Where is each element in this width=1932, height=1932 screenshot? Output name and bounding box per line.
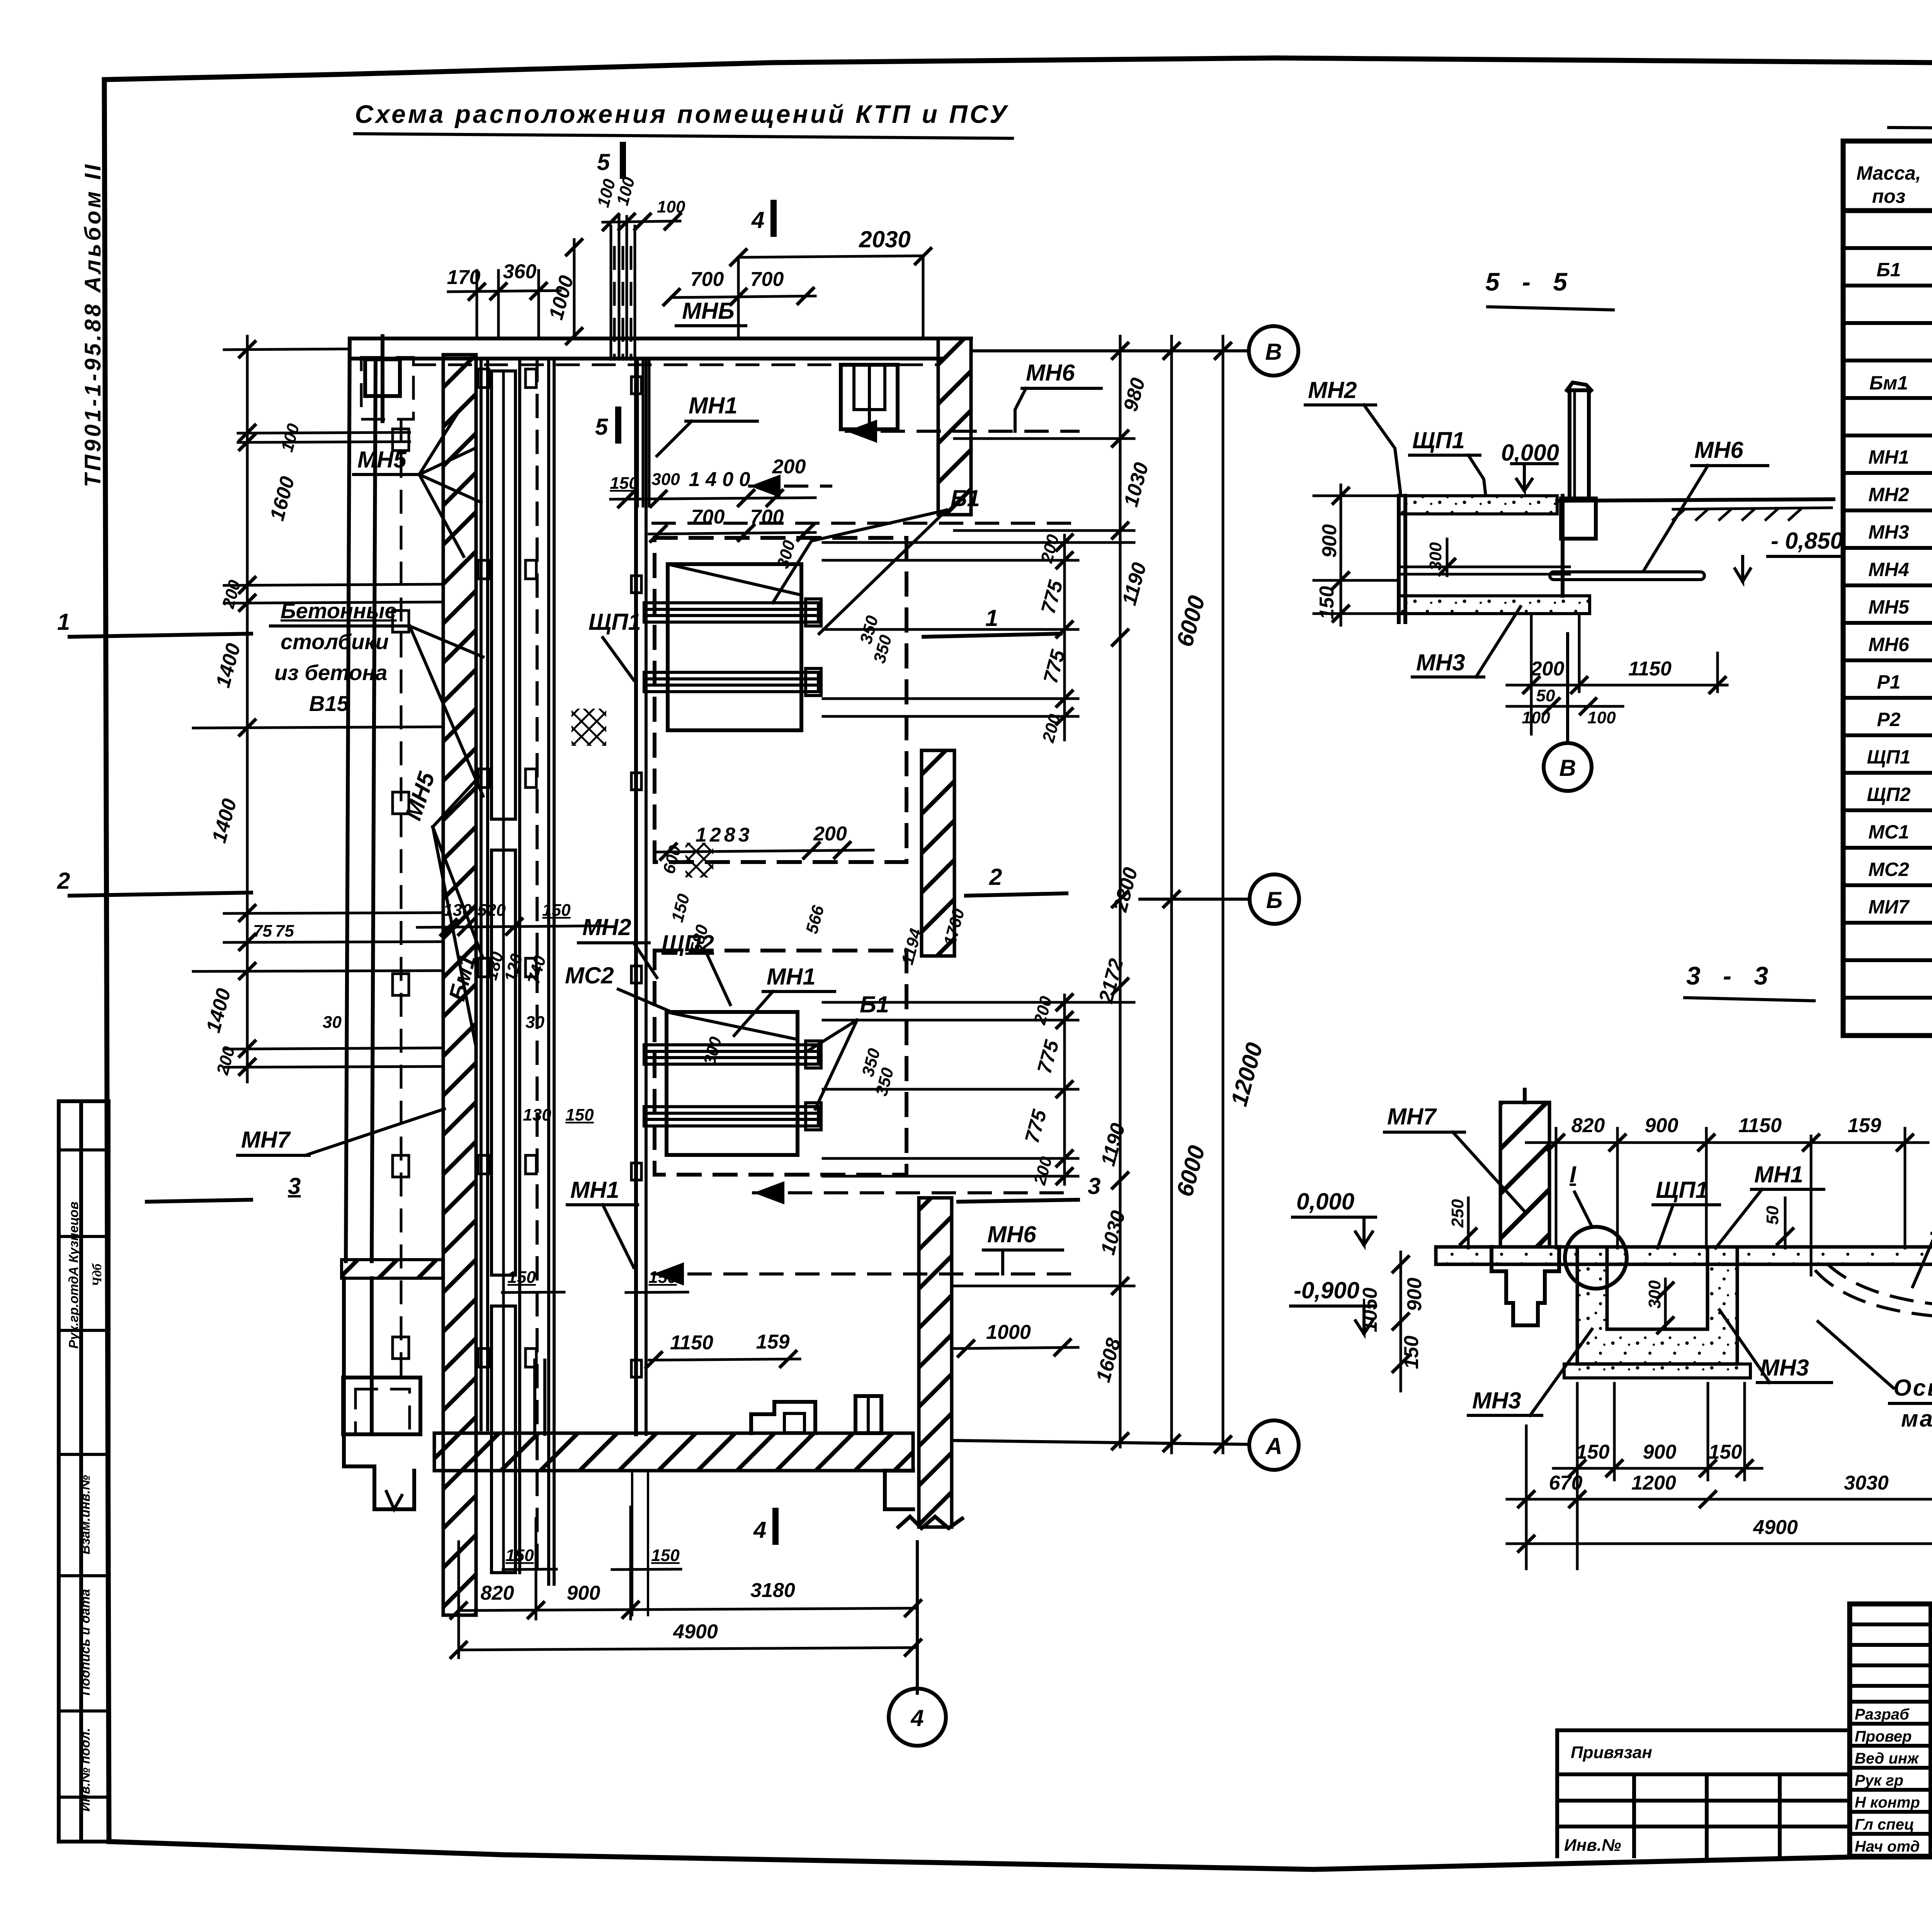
svg-text:А: А: [1265, 1433, 1282, 1459]
svg-text:МН7: МН7: [1387, 1104, 1437, 1129]
svg-text:150: 150: [651, 1546, 680, 1565]
svg-text:из бетона: из бетона: [274, 660, 387, 685]
svg-text:1: 1: [985, 605, 998, 631]
svg-text:159: 159: [756, 1331, 790, 1353]
svg-text:300: 300: [1426, 542, 1445, 571]
pit: [1577, 1247, 1737, 1364]
right chain: [1119, 336, 1122, 1447]
bottom dims: [1530, 614, 1533, 734]
svg-text:МС2: МС2: [565, 963, 614, 988]
svg-text:700: 700: [750, 268, 784, 291]
svg-text:Рук.гр.отдА Кузнецов: Рук.гр.отдА Кузнецов: [66, 1202, 81, 1349]
svg-text:4: 4: [753, 1517, 766, 1543]
svg-text:0,000: 0,000: [1296, 1189, 1354, 1214]
svg-text:1 4 0 0: 1 4 0 0: [689, 468, 750, 491]
svg-text:Ось трансфор-: Ось трансфор-: [1893, 1375, 1932, 1401]
svg-text:150: 150: [505, 1546, 534, 1565]
svg-text:2: 2: [57, 868, 70, 894]
B1 beam group upper: [668, 564, 801, 730]
svg-text:Р2: Р2: [1877, 709, 1900, 730]
svg-text:Б1: Б1: [951, 485, 980, 511]
svg-text:МН7: МН7: [241, 1127, 291, 1153]
mid-upper dims 150 300 1400 200: [611, 498, 815, 499]
svg-text:820: 820: [481, 1582, 514, 1604]
svg-text:30: 30: [526, 1013, 544, 1032]
left wall: [1500, 1102, 1549, 1247]
anchor squares MN5: [478, 369, 641, 1377]
bottom dims: [1576, 1383, 1579, 1569]
svg-text:МН4: МН4: [1868, 559, 1909, 580]
svg-text:1283: 1283: [696, 824, 753, 846]
svg-text:МН1: МН1: [1868, 446, 1909, 468]
section marks and axis labels on plan: [57, 145, 1299, 1746]
svg-text:900: 900: [1645, 1114, 1679, 1137]
svg-text:700: 700: [750, 506, 784, 528]
svg-text:МН6: МН6: [987, 1221, 1036, 1247]
transformer axis: [1810, 1136, 1813, 1275]
svg-text:150: 150: [1316, 586, 1338, 620]
svg-text:МН3: МН3: [1868, 521, 1909, 543]
svg-text:3 - 3: 3 - 3: [1686, 961, 1776, 990]
left rotated stamp: [59, 1101, 109, 1842]
svg-text:900: 900: [1403, 1278, 1426, 1311]
svg-text:МН1: МН1: [767, 964, 816, 990]
left dims: [1340, 485, 1342, 625]
dimension chains: [193, 175, 1267, 1659]
svg-text:150: 150: [565, 1105, 594, 1124]
svg-text:50: 50: [1763, 1206, 1782, 1225]
svg-text:360: 360: [503, 260, 537, 283]
svg-text:Чдб: Чдб: [90, 1263, 104, 1286]
svg-text:Масса,: Масса,: [1856, 162, 1921, 184]
east wall segments: [938, 338, 971, 515]
svg-text:130: 130: [523, 1105, 551, 1124]
svg-text:4: 4: [910, 1705, 923, 1731]
node circles: [971, 349, 1249, 352]
12000 chain: [1222, 336, 1225, 1453]
svg-text:150: 150: [1400, 1336, 1423, 1369]
svg-text:Б1: Б1: [1876, 259, 1901, 281]
svg-text:МН2: МН2: [1868, 484, 1909, 505]
svg-text:В: В: [1265, 339, 1282, 365]
svg-text:ЩП1: ЩП1: [588, 609, 641, 635]
bottom right corner jog: [885, 1471, 913, 1509]
svg-text:Б: Б: [1266, 887, 1282, 913]
main title: [355, 100, 1012, 138]
svg-text:I: I: [1570, 1162, 1577, 1187]
svg-text:МН1: МН1: [1754, 1162, 1803, 1187]
svg-text:2030: 2030: [859, 226, 910, 252]
svg-text:2: 2: [989, 864, 1002, 890]
crosshatch patches: [571, 709, 606, 746]
svg-text:200: 200: [1531, 658, 1565, 680]
svg-text:50: 50: [1536, 686, 1555, 705]
left vertical dims: [1400, 1252, 1402, 1391]
svg-text:матора: матора: [1901, 1406, 1932, 1432]
left chain: [246, 336, 249, 1082]
svg-text:МИ7: МИ7: [1868, 896, 1910, 918]
svg-text:МН2: МН2: [582, 914, 631, 940]
svg-text:МН6: МН6: [1868, 634, 1910, 655]
top wall band: [350, 337, 971, 340]
buried pipe MN6: [1550, 572, 1704, 580]
svg-text:3: 3: [1088, 1173, 1100, 1199]
svg-text:1000: 1000: [986, 1321, 1031, 1344]
svg-text:Б1: Б1: [860, 992, 889, 1017]
svg-text:170: 170: [447, 266, 481, 289]
main left wall hatched: [443, 355, 476, 1615]
small boxes above bottom wall: [751, 1402, 815, 1433]
svg-text:5: 5: [595, 414, 609, 440]
svg-text:900: 900: [1643, 1441, 1677, 1463]
svg-text:МС1: МС1: [1868, 821, 1909, 843]
bottom dims: [459, 1608, 916, 1611]
svg-text:Схема расположения помещений: Схема расположения помещений КТП и ПСУ: [355, 100, 1009, 128]
svg-text:900: 900: [567, 1582, 600, 1604]
svg-text:150: 150: [1576, 1441, 1610, 1463]
svg-text:100: 100: [1587, 708, 1616, 727]
svg-text:Инв.№ подл.: Инв.№ подл.: [78, 1728, 93, 1812]
svg-text:МНБ: МНБ: [682, 298, 735, 324]
svg-text:3: 3: [288, 1173, 301, 1199]
svg-text:30: 30: [323, 1013, 342, 1032]
svg-text:МН5: МН5: [1868, 596, 1910, 618]
svg-text:3180: 3180: [750, 1579, 795, 1602]
dashed cable lines with arrows: [653, 431, 1078, 1274]
svg-text:200: 200: [772, 456, 806, 478]
west exterior faces: [346, 338, 350, 1261]
node circle B: [1566, 634, 1569, 742]
svg-text:- 0,850: - 0,850: [1771, 528, 1843, 554]
svg-text:150: 150: [610, 474, 638, 493]
svg-text:ЩП1: ЩП1: [1412, 427, 1465, 453]
top-left interior post: [365, 359, 400, 396]
svg-text:670: 670: [1549, 1472, 1583, 1494]
svg-text:3030: 3030: [1844, 1472, 1889, 1494]
svg-text:ЩП1: ЩП1: [1867, 746, 1910, 768]
bottom-left footing steps: [344, 1434, 414, 1509]
svg-text:700: 700: [690, 268, 724, 291]
1150 159 1000 dims lower: [649, 1359, 800, 1360]
svg-text:МН2: МН2: [1308, 377, 1357, 403]
svg-text:820: 820: [1571, 1114, 1605, 1137]
svg-text:Нач отд: Нач отд: [1855, 1838, 1920, 1855]
svg-text:МС2: МС2: [1868, 859, 1909, 880]
svg-text:Бм1: Бм1: [1869, 372, 1908, 394]
P-symbol pipe inlet on top wall: [841, 365, 898, 429]
secondary beam chains: [823, 535, 1134, 1184]
concrete posts column: [400, 419, 403, 1376]
svg-text:столбики: столбики: [281, 629, 389, 654]
svg-text:5: 5: [597, 149, 611, 175]
svg-text:Провер: Провер: [1855, 1728, 1912, 1745]
svg-text:75: 75: [253, 922, 272, 940]
svg-text:1150: 1150: [1738, 1114, 1782, 1137]
detail circle I: [1565, 1227, 1627, 1289]
svg-text:150: 150: [542, 901, 571, 920]
svg-text:5 - 5: 5 - 5: [1485, 267, 1575, 296]
svg-text:МН6: МН6: [1694, 437, 1743, 463]
svg-text:Вед инж: Вед инж: [1855, 1750, 1920, 1767]
svg-text:250: 250: [1448, 1199, 1467, 1228]
svg-text:700: 700: [691, 506, 725, 528]
svg-text:150: 150: [507, 1268, 536, 1287]
svg-text:ТП901-1-95.88 Альбом II: ТП901-1-95.88 Альбом II: [80, 162, 105, 487]
svg-text:1: 1: [57, 609, 70, 635]
ground line right: [1557, 499, 1833, 501]
svg-text:Р1: Р1: [1877, 671, 1900, 693]
svg-text:0,000: 0,000: [1501, 440, 1559, 466]
channel lines along left wall: [480, 359, 483, 1430]
130 520 150 dims: [417, 926, 603, 927]
privyazan box: [1557, 1730, 1850, 1856]
svg-text:4: 4: [751, 207, 764, 233]
svg-text:Гл спец: Гл спец: [1855, 1816, 1914, 1833]
transformer dashed cells: [655, 538, 906, 862]
mid dims 1283 200: [657, 850, 873, 852]
svg-text:Инв.№: Инв.№: [1564, 1836, 1621, 1855]
top dims: [448, 291, 560, 292]
svg-text:ЩП1: ЩП1: [1656, 1177, 1708, 1203]
svg-text:Разраб: Разраб: [1855, 1706, 1910, 1723]
svg-text:520: 520: [477, 901, 506, 920]
svg-text:Н контр: Н контр: [1855, 1794, 1920, 1811]
svg-text:1200: 1200: [1631, 1472, 1676, 1494]
6000 chain: [1170, 336, 1173, 1453]
svg-text:МН1: МН1: [570, 1177, 619, 1203]
svg-text:МН6: МН6: [1026, 360, 1075, 386]
svg-text:МН1: МН1: [689, 393, 738, 418]
svg-text:100: 100: [657, 197, 685, 216]
svg-text:1150: 1150: [1628, 658, 1672, 680]
svg-text:1050: 1050: [1359, 1287, 1381, 1332]
svg-text:ЩП2: ЩП2: [1867, 784, 1910, 805]
svg-text:МН5: МН5: [357, 447, 407, 473]
buried pipe curve: [1816, 1271, 1932, 1318]
svg-text:900: 900: [1318, 524, 1341, 558]
svg-text:150: 150: [1709, 1441, 1742, 1463]
bottom-left interior box: [343, 1378, 420, 1434]
svg-text:200: 200: [813, 823, 847, 845]
svg-text:-0,900: -0,900: [1294, 1277, 1359, 1303]
top dims: [1555, 1128, 1558, 1248]
svg-text:поз: поз: [1872, 185, 1906, 207]
bottom wall band: [434, 1433, 913, 1471]
svg-text:Рук гр: Рук гр: [1855, 1772, 1903, 1789]
pipe bundle at top: [611, 216, 635, 359]
svg-text:МН3: МН3: [1416, 650, 1465, 675]
svg-text:150: 150: [648, 1268, 677, 1287]
top slab with wall: [1399, 496, 1557, 514]
svg-text:Привязан: Привязан: [1571, 1743, 1652, 1762]
svg-text:300: 300: [651, 470, 680, 489]
svg-text:Подпись и дата: Подпись и дата: [78, 1589, 93, 1696]
svg-text:В: В: [1559, 755, 1576, 781]
svg-text:МН3: МН3: [1472, 1388, 1521, 1413]
B1 beam group lower: [667, 1012, 798, 1155]
svg-text:75: 75: [275, 922, 294, 940]
svg-text:1150: 1150: [670, 1332, 713, 1354]
svg-text:4900: 4900: [673, 1621, 718, 1643]
standpipe: [1570, 390, 1589, 498]
svg-text:Взам.инв.№: Взам.инв.№: [78, 1475, 93, 1554]
150 150 marks mid-bottom: [502, 1292, 564, 1293]
svg-text:В15: В15: [309, 691, 349, 716]
plan labels: [238, 360, 1101, 1274]
svg-text:Бетонные: Бетонные: [281, 599, 397, 623]
west wall jog (hatched cross band): [342, 1260, 443, 1278]
floor slab: [1436, 1247, 1932, 1264]
svg-text:4900: 4900: [1753, 1516, 1798, 1539]
panel line (SchP1): [634, 359, 638, 1434]
svg-text:159: 159: [1848, 1114, 1881, 1137]
